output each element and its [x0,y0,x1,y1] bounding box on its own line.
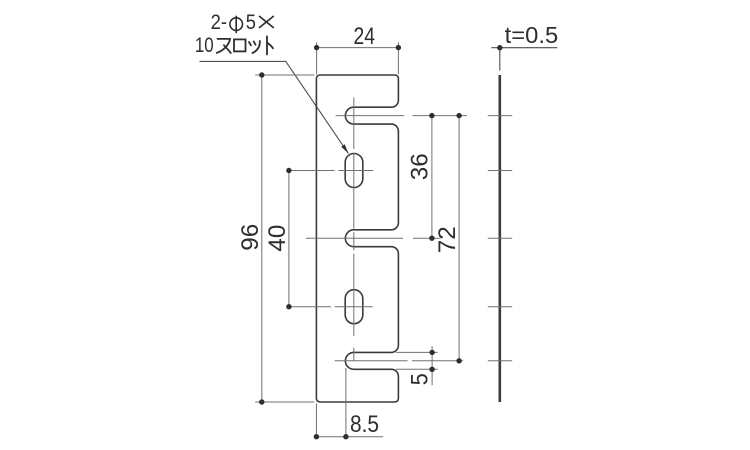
dimension 24: line [317,47,399,49]
dimension 5: dots [429,350,434,355]
arrowhead of leader [341,144,348,153]
dimension 40: line [288,171,290,307]
center line: slot 1 horizontal [289,170,373,172]
dimension 96: dots [259,72,264,77]
center line: top notch horizontal [336,115,467,117]
svg-text:2-: 2- [211,10,227,34]
side view plate edge (thick line) [498,75,501,402]
svg-text:10: 10 [195,33,214,57]
center line: slots vertical [353,98,355,361]
dimension 8.5: extension lines [316,368,346,439]
dimension 24: dots [314,45,319,50]
glyph katakana small TSU [249,41,260,53]
slot hole 2 (bottom capsule) [345,290,363,324]
dimension 72: dots [456,113,461,118]
dimension 96: extension lines [255,75,314,402]
svg-text:40: 40 [264,225,291,252]
dimension 72: line [458,116,460,361]
svg-text:8.5: 8.5 [350,411,379,438]
part outline front view [316,75,398,402]
dimension 36: dots [429,113,434,118]
glyph katakana TO [267,36,273,54]
dimension 36: line [431,116,433,239]
dimension 8.5: dots [314,434,319,439]
slot hole 1 (top capsule) [345,154,363,188]
dimension 96: line [261,75,263,402]
center line: bottom notch horizontal [335,360,463,362]
svg-text:24: 24 [354,23,376,50]
glyph katakana SU [217,39,231,53]
dimension 8.5: line [316,436,383,438]
glyph multiply sign [260,16,274,27]
side view tick marks [488,116,512,361]
center line: middle notch horizontal [306,237,441,239]
dimension 5: extension lines [396,352,438,369]
t=0.5 leader dot [497,45,502,50]
dimension 24 top: extension lines [317,42,399,74]
svg-text:5: 5 [246,10,256,34]
dimension 40: dots [286,168,291,173]
svg-text:t=0.5: t=0.5 [505,22,559,48]
svg-text:36: 36 [407,153,434,180]
wire: leader underline for slot label [200,61,349,153]
center line: slot 2 horizontal [289,306,373,308]
t=0.5 leader underline [491,48,557,71]
svg-text:5: 5 [406,373,433,385]
glyph phi [230,16,243,33]
svg-text:96: 96 [237,224,264,251]
svg-text:72: 72 [434,226,461,253]
glyph katakana RO [234,39,246,51]
dimension 5: line [431,346,433,385]
